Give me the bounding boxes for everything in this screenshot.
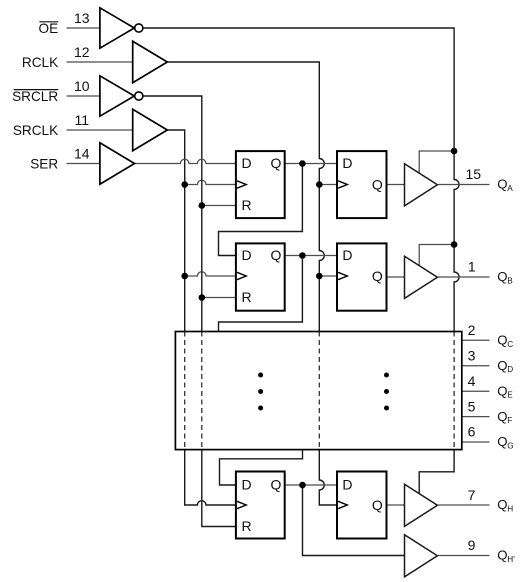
svg-text:9: 9 <box>468 537 476 553</box>
svg-text:Q: Q <box>271 247 282 263</box>
GATES <box>100 8 167 184</box>
svg-text:D: D <box>342 477 352 493</box>
svg-text:R: R <box>242 518 252 534</box>
node OE-QB ctrl <box>451 241 458 248</box>
svg-text:C: C <box>507 340 513 349</box>
svg-text:Q: Q <box>271 477 282 493</box>
wire SER input <box>67 163 100 165</box>
svg-text:RCLK: RCLK <box>22 55 58 70</box>
wire RCLK net <box>167 62 324 332</box>
wire QH output <box>438 504 490 506</box>
svg-text:Q: Q <box>497 269 507 284</box>
wire QG pin <box>462 441 490 443</box>
dashed SRCLK net inside box <box>184 332 186 450</box>
buffer QH' <box>405 535 438 577</box>
node Q8 branch <box>299 482 306 489</box>
svg-text:Q: Q <box>497 333 507 348</box>
latch flip-flop L1 <box>337 151 387 218</box>
svg-text:11: 11 <box>75 112 90 128</box>
svg-text:A: A <box>507 184 513 193</box>
node SRCLK-FF1 <box>181 181 188 188</box>
svg-text:2: 2 <box>468 322 476 338</box>
wire latch1 Q to QA buffer <box>387 184 405 186</box>
wire QA output <box>438 184 490 186</box>
wire QD pin <box>462 365 490 367</box>
svg-text:Q: Q <box>497 548 507 563</box>
svg-text:E: E <box>507 391 513 400</box>
buffer SRCLK <box>133 109 168 150</box>
svg-text:4: 4 <box>468 373 476 389</box>
wire OE net <box>143 28 459 332</box>
wire FF1 Q to latch1 D <box>285 163 337 165</box>
wire SRCLK to FF1 clock <box>185 180 237 184</box>
svg-text:6: 6 <box>468 424 476 440</box>
node SRCLR-FF2 <box>199 294 206 301</box>
wire SRCLK input <box>67 129 133 131</box>
wire FF8 Q to QH' buffer <box>303 485 405 556</box>
svg-text:7: 7 <box>468 487 476 503</box>
svg-text:Q: Q <box>372 497 383 513</box>
svg-text:D: D <box>342 155 352 171</box>
wire SRCLR input <box>67 95 100 97</box>
tri-state buffer QB <box>405 256 438 298</box>
svg-text:Q: Q <box>372 177 383 193</box>
node OE-QA ctrl <box>451 148 458 155</box>
svg-text:SER: SER <box>30 157 58 172</box>
FF2 clock triangle <box>237 272 246 279</box>
ellipsis dots right column <box>384 373 389 411</box>
inverter SRCLR <box>100 76 134 116</box>
wire RCLK to latch2 clock <box>319 275 337 277</box>
wire SRCLK net <box>167 130 184 332</box>
buffer RCLK <box>133 41 168 82</box>
svg-text:1: 1 <box>468 259 476 275</box>
dashed OE net inside box <box>453 332 455 450</box>
svg-text:R: R <box>242 197 252 213</box>
dashed RCLK net inside box <box>318 332 320 450</box>
TEXT LABELS <box>12 21 58 172</box>
wire SRCLR to FF1 reset <box>202 205 237 207</box>
tri-state buffer QH <box>405 484 438 526</box>
wire FF8 Q to latch8 D <box>285 484 337 486</box>
svg-text:Q: Q <box>497 434 507 449</box>
wire OE input <box>67 27 100 29</box>
node Q1 branch <box>299 160 306 167</box>
wire OE to QA buffer control <box>419 151 454 173</box>
wire FF1 Q to FF2 D <box>219 164 303 256</box>
svg-text:Q: Q <box>497 177 507 192</box>
svg-text:15: 15 <box>466 166 482 182</box>
wire latch8 Q to QH buffer <box>387 504 405 506</box>
svg-text:D: D <box>242 247 252 263</box>
wire FF2 Q into hidden stages box <box>219 256 303 332</box>
wire SRCLR net below box to FF8 reset <box>202 450 237 527</box>
node Q2 branch <box>299 252 306 259</box>
svg-text:5: 5 <box>468 398 476 414</box>
svg-text:D: D <box>507 365 513 374</box>
hidden stages box <box>175 332 461 450</box>
svg-text:D: D <box>342 247 352 263</box>
wire hidden stage Q7 to FF8 D <box>220 450 303 485</box>
svg-text:SRCLR: SRCLR <box>12 89 58 104</box>
shift flip-flop FF1 <box>236 151 285 218</box>
wire RCLK input <box>67 61 133 63</box>
FLIP-FLOPS <box>236 151 387 538</box>
wire SRCLR to FF2 reset <box>202 297 237 299</box>
svg-text:SRCLK: SRCLK <box>13 123 58 138</box>
wire OE to QB buffer control <box>419 245 454 266</box>
wire SRCLR net <box>143 96 202 332</box>
wire latch2 Q to QB buffer <box>387 276 405 278</box>
svg-text:H: H <box>507 505 513 514</box>
shift flip-flop FF8 <box>236 472 285 539</box>
wire RCLK to latch1 clock <box>319 184 337 186</box>
svg-text:OE: OE <box>39 21 59 36</box>
wire SRCLK net below box to FF8 clock <box>185 450 237 505</box>
node RCLK-latch2 <box>316 273 323 280</box>
svg-text:F: F <box>507 416 512 425</box>
latch8 clock triangle <box>338 501 347 508</box>
latch flip-flop L8 <box>337 472 387 539</box>
svg-text:10: 10 <box>74 78 90 94</box>
wire SER to FF1 D <box>135 159 237 163</box>
svg-text:3: 3 <box>468 347 476 363</box>
svg-text:Q: Q <box>497 497 507 512</box>
svg-text:Q: Q <box>497 358 507 373</box>
node SRCLR-FF1 <box>199 202 206 209</box>
wire FF2 Q to latch2 D <box>285 255 337 257</box>
svg-text:14: 14 <box>74 146 90 162</box>
svg-text:D: D <box>242 155 252 171</box>
ellipsis dots left column <box>258 373 263 411</box>
latch2 clock triangle <box>338 272 347 279</box>
svg-text:D: D <box>242 477 252 493</box>
svg-text:Q: Q <box>497 409 507 424</box>
dashed SRCLR net inside box <box>201 332 203 450</box>
svg-text:R: R <box>242 289 252 305</box>
node RCLK-latch1 <box>316 181 323 188</box>
buffer SER <box>100 143 135 184</box>
shift flip-flop FF2 <box>236 243 285 310</box>
svg-text:B: B <box>507 277 513 286</box>
svg-text:13: 13 <box>74 10 90 26</box>
svg-text:Q: Q <box>497 383 507 398</box>
latch flip-flop L2 <box>337 243 387 310</box>
wire QB output <box>438 276 490 278</box>
svg-text:G: G <box>507 442 513 451</box>
latch1 clock triangle <box>338 181 347 188</box>
wire QH' output <box>438 555 490 557</box>
wire QF pin <box>462 416 490 418</box>
wire QE pin <box>462 390 490 392</box>
wire QC pin <box>462 339 490 341</box>
tri-state buffer QA <box>405 164 438 206</box>
svg-text:12: 12 <box>74 44 90 60</box>
svg-text:H': H' <box>507 555 515 564</box>
FF8 clock triangle <box>237 501 246 508</box>
wire OE net below box to QH buffer control <box>419 450 454 495</box>
inverter OE <box>100 8 134 48</box>
wire SRCLK to FF2 clock <box>185 272 237 276</box>
node SRCLK-FF2 <box>181 273 188 280</box>
svg-text:Q: Q <box>372 268 383 284</box>
svg-text:Q: Q <box>271 155 282 171</box>
wire RCLK net below box to latch8 clock <box>319 450 337 505</box>
FF1 clock triangle <box>237 181 246 188</box>
clock input triangles <box>237 181 347 509</box>
